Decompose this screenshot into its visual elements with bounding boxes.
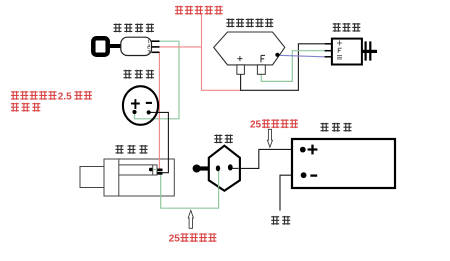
svg-text:25: 25 — [250, 119, 262, 130]
label: qi dong ji (starter) — [116, 145, 124, 154]
knife switch contact dot 1 — [216, 165, 220, 171]
wire: red from ignition pin2 to lamp-switch line — [159, 46, 202, 48]
regulator right tab — [257, 65, 265, 74]
label: jie che deng kai guan (red, to car lamp switch) — [175, 6, 183, 15]
pin 2 stub — [152, 46, 160, 48]
wire: black from ammeter - terminal to starter terminal — [149, 112, 169, 172]
black wire segment inside starter body — [162, 158, 168, 172]
regulator U1 hexagon body — [214, 32, 285, 65]
callout up arrow to starter cable — [188, 210, 193, 228]
starter main body — [104, 159, 174, 196]
wire: black from battery - to ground — [280, 175, 301, 210]
ammeter - terminal dot — [147, 110, 151, 114]
knife switch handle bar — [197, 166, 210, 170]
label: dian huo kai guan (ignition switch) — [114, 24, 122, 33]
ammeter body circle — [123, 86, 158, 125]
wire: red from ignition pin3 down to starter solenoid terminal — [158, 52, 161, 168]
generator shaft — [362, 50, 377, 53]
regulator + label — [237, 56, 242, 61]
generator + pin label — [337, 40, 342, 45]
generator ground pin label — [337, 56, 342, 59]
starter solenoid top line — [119, 164, 153, 166]
starter body divider — [118, 159, 120, 196]
wire: red vertical from lamp-switch label down to regulator junction — [202, 15, 241, 91]
starter solenoid green jumper — [151, 168, 158, 170]
label: red note line2 guo biao xian — [11, 103, 19, 112]
regulator right vertex dot — [275, 53, 279, 57]
starter solenoid bottom line — [119, 174, 153, 176]
label: dian zi tiao jie qi (electronic regulator) — [226, 19, 234, 28]
generator pulley bar 1 — [365, 41, 367, 60]
starter terminal bar 1 — [157, 169, 162, 172]
wire: black from knife switch to battery + — [233, 149, 300, 168]
ammeter - mark — [146, 102, 152, 104]
label: dian zha (knife switch) — [214, 135, 222, 144]
starter nose rect — [80, 167, 104, 188]
label: xu dian chi (battery) — [321, 123, 329, 132]
ignition switch body — [121, 37, 152, 55]
wire: green from regulator F tab to generator F pin — [261, 51, 324, 82]
callout down arrow to battery cable — [267, 129, 272, 147]
generator pin 3 stub — [325, 56, 332, 58]
starter terminal dot — [149, 168, 153, 172]
knife switch internal wire from right contact — [233, 167, 239, 169]
red wire segment inside starter body — [158, 158, 160, 168]
pin 3 stub — [152, 51, 160, 53]
key head of ignition key — [93, 38, 107, 54]
key stem — [110, 44, 123, 48]
starter solenoid end cap — [153, 165, 157, 175]
wire: blue from regulator right vertex to generator third pin — [278, 55, 325, 57]
knife switch contact dot 2 — [228, 164, 233, 170]
pin 1 stub — [152, 40, 160, 42]
generator pin 1 stub — [325, 43, 332, 45]
ammeter + terminal dot — [132, 110, 136, 114]
generator F pin label — [338, 48, 342, 53]
label: fa dian ji (generator) — [333, 23, 341, 32]
wire: black from regulator + tab to generator + pin — [241, 44, 325, 91]
svg-text:2.5: 2.5 — [58, 92, 72, 103]
wire: green from ignition pin1 to ammeter + terminal — [135, 41, 180, 119]
regulator left tab — [237, 65, 245, 74]
battery - sign — [310, 174, 317, 176]
knife switch handle knob — [193, 165, 201, 173]
battery + sign — [308, 145, 318, 155]
ammeter + mark — [131, 99, 140, 109]
wire: green heavy cable from starter terminal to knife switch — [161, 169, 219, 208]
svg-text:25: 25 — [169, 233, 181, 244]
battery + terminal dot — [300, 147, 306, 153]
battery box — [292, 139, 395, 188]
generator pin 2 stub — [325, 50, 332, 52]
generator pulley bar 2 — [369, 41, 371, 60]
battery - terminal dot — [301, 172, 307, 178]
label: jie di (ground) — [271, 216, 279, 225]
starter terminal bar 2 — [157, 172, 162, 175]
label: dian liu biao (ammeter) — [124, 70, 132, 79]
knife switch internal green wire to left contact — [218, 169, 220, 188]
regulator F label — [261, 55, 265, 62]
knife switch hexagon body — [209, 146, 240, 191]
generator box — [332, 39, 362, 65]
label: red note line1 qi ta jie xian yong 2.5 ping fang — [11, 91, 19, 100]
green cable segment inside starter body — [160, 175, 162, 197]
pin number labels 1 2 3 — [148, 39, 150, 43]
